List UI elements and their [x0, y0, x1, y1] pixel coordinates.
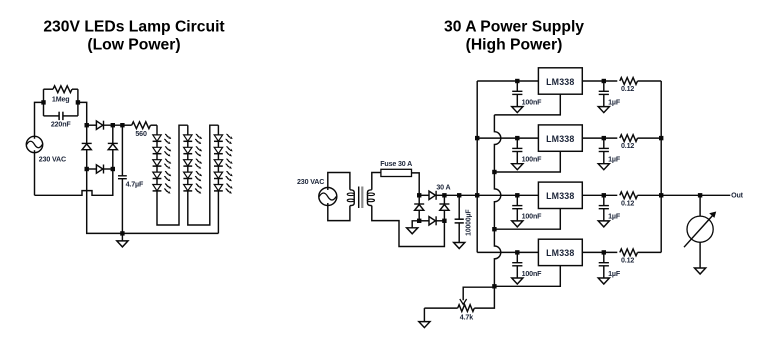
LED D10 column 2 [184, 135, 192, 141]
bridge B1 bottom-left node [85, 167, 89, 171]
transformer T1 secondary winding [368, 190, 372, 206]
svg-text:LM338: LM338 [546, 248, 574, 258]
node: 100nF junction row 3 [515, 193, 519, 197]
diode D21 (bridge2 left rail) [414, 203, 424, 205]
regulator U4 LM338 [538, 239, 582, 265]
svg-text:LM338: LM338 [546, 134, 574, 144]
resistor R6 0.12 row 4 [620, 249, 638, 256]
svg-text:Out: Out [731, 192, 744, 200]
wire input rail row 1 [477, 80, 538, 82]
wire V1 return with hop over rail [35, 169, 113, 195]
bridge B2 right rail wire [443, 195, 445, 221]
node: ADJ bus junction row 3 [492, 227, 496, 231]
capacitor C3 10000uF [458, 195, 460, 219]
resistor R3 0.12 row 1 [620, 78, 638, 85]
bridge B2 top-left node [417, 193, 421, 197]
wire R5 to output rail [638, 194, 662, 196]
LED D9 column 1 [153, 185, 161, 191]
potentiometer R7 4.7k [458, 305, 475, 312]
wire V1 bottom lead [34, 150, 36, 195]
LED column 3 wire [217, 125, 219, 233]
bridge B1 top-left node [85, 123, 89, 127]
LED D5 column 1 [153, 135, 161, 141]
LED D15 column 3 [214, 135, 222, 141]
transformer T1 primary winding [350, 190, 354, 206]
fuse F1 30 A [381, 169, 412, 176]
node: ADJ bus junction row 2 [492, 170, 496, 174]
diode D2 (bridge left rail) [82, 142, 92, 144]
wire U4 ADJ pin [494, 266, 560, 287]
svg-text:30 A: 30 A [436, 183, 450, 191]
svg-text:1µF: 1µF [608, 156, 621, 164]
LED D16 column 3 [214, 147, 222, 153]
svg-text:230 VAC: 230 VAC [297, 178, 324, 186]
svg-text:230 VAC: 230 VAC [39, 156, 66, 164]
diode D1 (bridge top) [87, 124, 97, 126]
diode D4 (bridge bottom) [87, 168, 97, 170]
svg-text:100nF: 100nF [522, 213, 543, 221]
svg-text:0.12: 0.12 [621, 142, 634, 150]
ground GND2 at bridge2 [412, 221, 419, 228]
svg-text:LM338: LM338 [546, 77, 574, 87]
capacitor C11 1uF row 4 [603, 252, 605, 262]
node: 1uF junction row 4 [602, 250, 606, 254]
resistor R1 1Meg [44, 88, 54, 90]
node: RC right junction [76, 100, 80, 104]
node: 1uF junction row 1 [602, 79, 606, 83]
wire V2 bottom lead to transformer primary [328, 203, 350, 221]
wire output collection rail (right rail) [660, 81, 662, 252]
LED D11 column 2 [184, 147, 192, 153]
bridge B2 bottom-right node [442, 219, 446, 223]
diode D22 (bridge2 right rail) [439, 203, 449, 205]
svg-text:0.12: 0.12 [621, 257, 634, 265]
svg-text:(Low Power): (Low Power) [87, 37, 180, 54]
svg-text:220nF: 220nF [51, 120, 72, 128]
wire input rail row 4 [477, 251, 538, 253]
wire fuse to bridge B2 top-left [412, 173, 420, 195]
svg-text:1Meg: 1Meg [52, 95, 70, 103]
capacitor C5 100nF row 2 [516, 138, 518, 148]
bridge B1 bottom-right node [111, 167, 115, 171]
svg-text:Fuse 30 A: Fuse 30 A [380, 160, 412, 168]
wire RC to bridge top-left [78, 102, 87, 125]
svg-text:10000µF: 10000µF [465, 210, 472, 236]
LED D6 column 1 [153, 147, 161, 153]
svg-text:100nF: 100nF [522, 270, 543, 278]
AC source V1 230 VAC [26, 136, 42, 152]
wire U2 output [582, 137, 617, 139]
wire DC+ distribution rail (left rail) [476, 81, 478, 252]
bridge B1 top-right node [111, 123, 115, 127]
node: 1uF junction row 3 [602, 193, 606, 197]
node: out rail row3 junction [659, 193, 663, 197]
ground GND1 [121, 233, 123, 241]
resistor R2 560 [122, 124, 131, 126]
svg-text:(High Power): (High Power) [466, 37, 563, 54]
node: 100nF junction row 2 [515, 136, 519, 140]
wire bottom return rail [87, 169, 219, 233]
ground GND3 at C3 [454, 243, 465, 249]
diode D3 (bridge right rail) [108, 142, 118, 144]
wire U3 output [582, 194, 617, 196]
diode D23 (bridge2 bottom) [419, 220, 429, 222]
wire R3 to output rail [638, 80, 662, 82]
svg-text:560: 560 [135, 130, 147, 138]
LED column 2 wire [188, 125, 219, 225]
svg-text:230V LEDs Lamp Circuit: 230V LEDs Lamp Circuit [43, 19, 225, 36]
RC block left vertical wire [43, 89, 45, 116]
wire R6 to output rail [638, 251, 662, 253]
node: ADJ bus junction row 4 [492, 284, 496, 288]
capacitor C4 100nF row 1 [516, 81, 518, 91]
wire secondary top to fuse [372, 173, 381, 190]
wire U4 output [582, 251, 617, 253]
resistor R5 0.12 row 3 [620, 192, 638, 199]
capacitor C6 100nF row 3 [516, 195, 518, 205]
LED D19 column 3 [214, 185, 222, 191]
capacitor C1 220nF [44, 115, 60, 117]
wire input rail row 2 [477, 137, 538, 139]
LED D12 column 2 [184, 160, 192, 166]
wire meter to ground [699, 242, 701, 268]
AC source V2 230 VAC [319, 188, 337, 206]
node: out rail row2 junction [659, 136, 663, 140]
capacitor C2 4.7uF [121, 125, 123, 176]
bridge B1 left rail wire [86, 125, 88, 169]
svg-text:1µF: 1µF [608, 213, 621, 221]
svg-text:100nF: 100nF [522, 156, 543, 164]
capacitor C7 100nF row 4 [516, 252, 518, 262]
ground GND12 under meter [695, 268, 706, 274]
LED D14 column 2 [184, 185, 192, 191]
LED D17 column 3 [214, 160, 222, 166]
wire ADJ bus to potentiometer [474, 287, 494, 308]
node: DC+ junction to filter cap [120, 123, 124, 127]
svg-text:100nF: 100nF [522, 98, 543, 106]
svg-text:LM338: LM338 [546, 191, 574, 201]
wire secondary bottom to bridge2 [372, 206, 445, 247]
node: rail row2 junction [475, 136, 479, 140]
wire input rail row 3 [444, 194, 538, 196]
node: C3 junction [457, 193, 461, 197]
svg-text:30 A Power Supply: 30 A Power Supply [444, 19, 584, 36]
LED D7 column 1 [153, 160, 161, 166]
svg-text:0.12: 0.12 [621, 85, 634, 93]
svg-text:4.7k: 4.7k [460, 314, 473, 322]
wire R4 to output rail [638, 137, 662, 139]
capacitor C10 1uF row 3 [603, 195, 605, 205]
node: 1uF junction row 2 [602, 136, 606, 140]
node: rail row3 junction [475, 193, 479, 197]
LED D8 column 1 [153, 172, 161, 178]
RC block right vertical wire [77, 89, 79, 116]
resistor R4 0.12 row 2 [620, 135, 638, 142]
bridge B2 bottom-left node [417, 219, 421, 223]
LED column 1 wire [157, 125, 188, 225]
wire to Out [661, 194, 730, 196]
wire U3 ADJ pin [494, 209, 560, 230]
LED D13 column 2 [184, 172, 192, 178]
capacitor C8 1uF row 1 [603, 81, 605, 91]
ground GND13 at pot [423, 308, 425, 322]
wire U2 ADJ pin [494, 151, 560, 172]
wire U1 output [582, 80, 617, 82]
wire 560 to LED string top [156, 125, 158, 135]
wire U1 ADJ pin [494, 94, 560, 115]
node: 100nF junction row 4 [515, 250, 519, 254]
capacitor C9 1uF row 2 [603, 138, 605, 148]
LED D18 column 3 [214, 172, 222, 178]
bridge B1 right rail wire [112, 125, 114, 169]
transformer T1 core [358, 187, 360, 209]
node: V1 to RC left junction [41, 100, 45, 104]
node: ground junction [120, 231, 124, 235]
svg-text:1µF: 1µF [608, 98, 621, 106]
svg-text:1µF: 1µF [608, 270, 621, 278]
wire pot wiper [463, 287, 494, 300]
ADJ bus wire with hops [494, 115, 500, 287]
wire V1 top lead [35, 102, 44, 138]
bridge B2 left rail wire [418, 195, 420, 221]
meter M1 [699, 195, 701, 216]
svg-text:0.12: 0.12 [621, 199, 634, 207]
regulator U3 LM338 [538, 182, 582, 208]
node: 100nF junction row 1 [515, 79, 519, 83]
regulator U2 LM338 [538, 125, 582, 151]
svg-text:4.7µF: 4.7µF [126, 181, 144, 189]
diode D20 (bridge2 top) 30 A [419, 194, 429, 196]
bridge B2 top-right node [442, 193, 446, 197]
regulator U1 LM338 [538, 68, 582, 94]
wire V2 top lead to transformer primary [328, 173, 350, 191]
node: meter junction [698, 193, 702, 197]
